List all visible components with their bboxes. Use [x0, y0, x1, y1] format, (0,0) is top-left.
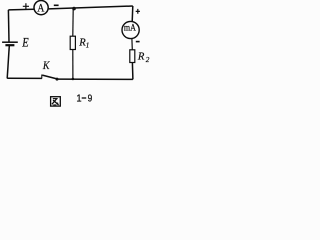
caption hyphen: [82, 97, 87, 99]
svg-text:1: 1: [86, 41, 90, 49]
switch K pivot dot: [56, 78, 59, 81]
junction dot top node: [72, 7, 76, 11]
label R1: [78, 38, 89, 50]
svg-text:mA: mA: [124, 22, 137, 33]
wire left vertical upper: [7, 10, 10, 42]
wire top horizontal to right corner: [49, 6, 133, 9]
svg-text:K: K: [42, 59, 50, 72]
svg-text:E: E: [21, 37, 28, 50]
switch K contact tick: [41, 75, 43, 79]
battery E negative plate: [5, 44, 14, 46]
plus mark at ammeter left: [23, 3, 29, 9]
svg-text:9: 9: [88, 92, 93, 104]
wire left vertical lower: [7, 46, 9, 79]
minus mark at milliammeter: [136, 41, 140, 43]
wire top-left horizontal: [8, 8, 33, 11]
wire R1 branch lower: [72, 50, 74, 79]
battery E positive plate: [2, 41, 18, 43]
resistor R2 box: [130, 50, 135, 63]
minus mark at ammeter right: [54, 4, 59, 6]
junction dot bottom node: [72, 78, 75, 81]
wire R2 to bottom-right corner: [131, 63, 134, 80]
milliammeter circle: [122, 21, 139, 38]
svg-text:2: 2: [146, 56, 150, 64]
wire bottom left: [7, 77, 42, 79]
svg-text:R: R: [137, 52, 145, 63]
caption figure glyph box: [51, 97, 61, 106]
svg-text:1: 1: [76, 93, 82, 105]
wire right vertical upper: [131, 6, 134, 22]
switch K blade: [42, 75, 57, 79]
wire bottom right: [57, 78, 133, 80]
ammeter A circle: [34, 1, 48, 15]
wire milliammeter to R2: [131, 39, 133, 50]
resistor R1 box: [70, 36, 75, 49]
caption number 1-9: [76, 92, 92, 105]
svg-text:A: A: [37, 2, 44, 15]
wire R1 branch upper: [72, 9, 74, 37]
plus mark at milliammeter: [136, 9, 140, 14]
label R2: [137, 52, 150, 64]
